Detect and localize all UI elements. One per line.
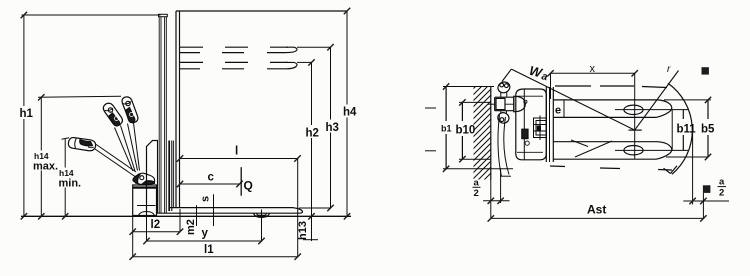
svg-text:b10: b10: [456, 125, 476, 137]
lowered fork side profile: [157, 208, 302, 214]
svg-text:h4: h4: [343, 107, 357, 119]
dimension l1 horizontal: [133, 256, 298, 258]
label h4: [342, 105, 357, 119]
svg-text:l: l: [235, 146, 238, 158]
dimension c horizontal: [180, 183, 240, 185]
label h1: [19, 106, 34, 120]
a/2 left verticals: [490, 180, 492, 219]
mast top cap: [159, 14, 168, 16]
dimension b10 vertical: [461, 102, 463, 121]
label h3: [325, 120, 340, 135]
lower fork top view: [553, 142, 672, 160]
dimension l2 horizontal: [133, 231, 180, 233]
drive wheel cross: [137, 205, 156, 207]
tiller head upper-left position: [103, 103, 122, 126]
x dimension line: [551, 72, 635, 74]
fork 2 tip: [286, 62, 297, 68]
load wheel cross: [261, 210, 263, 221]
svg-text:h13: h13: [297, 221, 309, 240]
svg-text:2: 2: [719, 188, 724, 199]
tiller head upper-right position: [122, 97, 138, 123]
dimension Ast horizontal: [491, 217, 704, 219]
fork 1 tip: [286, 47, 297, 52]
arc apex extension vertical: [692, 131, 694, 205]
drive wheel arc: [139, 212, 155, 216]
fork top extension right: [664, 99, 711, 101]
label a/2 left: [474, 178, 480, 200]
tiller pivot foot: [133, 173, 155, 184]
svg-text:max.: max.: [33, 161, 58, 173]
svg-text:h14: h14: [34, 151, 49, 161]
svg-text:b11: b11: [677, 124, 697, 136]
l2 extension verticals: [132, 216, 134, 258]
fork bottom extension right: [666, 156, 708, 158]
label h2: [305, 125, 320, 140]
dimension h14 min vertical line: [64, 139, 66, 217]
label h14 min: [58, 168, 81, 190]
svg-text:min.: min.: [59, 178, 82, 190]
dimension b11 vertical: [671, 110, 673, 151]
load envelope dashes top: [555, 86, 667, 88]
e dimension tick: [563, 100, 565, 118]
dimension b5 vertical: [707, 100, 709, 119]
b1 extension bottom: [443, 168, 513, 170]
upper aisle corner square: [702, 67, 709, 74]
truck body top view: [516, 89, 547, 160]
dimension h1 vertical line: [23, 15, 25, 216]
b10 extension top: [459, 101, 491, 103]
h1 tick top: [21, 12, 27, 18]
load wheel bumps: [254, 213, 270, 217]
h1 top extension line: [22, 14, 161, 16]
dimension y horizontal: [147, 240, 262, 242]
wall hatching: [470, 68, 494, 200]
upper fork top view: [553, 100, 672, 118]
fork carriage plates top view: [545, 87, 547, 162]
svg-text:b5: b5: [701, 124, 715, 136]
square to Ast extension: [702, 193, 704, 219]
lower aisle corner square: [703, 185, 711, 193]
svg-text:l1: l1: [204, 244, 214, 256]
raised fork 1 dashes bottom: [179, 52, 286, 54]
partial mirrored steer line: [575, 141, 612, 157]
load envelope dashes bottom: [550, 166, 672, 170]
turning radius arc: [668, 83, 692, 174]
svg-text:x: x: [590, 63, 596, 75]
svg-text:a: a: [719, 177, 725, 188]
arc arrowhead: [664, 166, 678, 174]
svg-text:s: s: [200, 196, 212, 202]
svg-text:2: 2: [474, 188, 479, 199]
dimension h2 vertical: [311, 62, 313, 241]
a/2 right dimension line: [683, 200, 729, 202]
label h14 max: [33, 151, 58, 173]
Wa line: [511, 69, 634, 130]
svg-text:b1: b1: [441, 124, 452, 134]
label a/2 right: [719, 177, 725, 199]
extension fork2 top to h2: [297, 61, 312, 63]
P node tick: [629, 129, 642, 131]
svg-text:m2: m2: [185, 219, 197, 235]
a/2 left dimension line: [483, 200, 510, 202]
h13 fork-top tick line: [299, 207, 331, 209]
b11 second vertical: [682, 110, 684, 119]
mast channel lines: [158, 17, 160, 214]
dimension h3 vertical: [330, 47, 332, 208]
h1 tick bottom: [21, 213, 27, 219]
svg-text:h2: h2: [306, 128, 319, 140]
y extension verticals: [146, 218, 148, 242]
raised fork 2 dashes top: [180, 61, 288, 63]
centerline dashes left: [425, 107, 436, 109]
svg-text:h3: h3: [326, 122, 339, 134]
drive unit body box: [133, 185, 157, 216]
svg-text:Q: Q: [244, 179, 253, 193]
s dimension vertical: [213, 194, 215, 226]
h14 max extension line: [38, 96, 121, 97]
dimension b1 vertical: [445, 87, 447, 122]
upper load wheel: [624, 105, 643, 114]
lower load wheel: [624, 146, 643, 155]
tiller head lowered (h14 min position): [68, 138, 95, 151]
h14 min top tick line: [62, 138, 70, 140]
tiller arm fan lines: [95, 123, 140, 177]
raised fork 1 dashes top: [180, 46, 288, 48]
svg-text:l2: l2: [151, 219, 161, 231]
svg-text:e: e: [555, 105, 561, 117]
b10 extension bottom: [459, 158, 491, 160]
axle center vertical: [634, 73, 636, 158]
wall face line: [490, 86, 492, 180]
m2 dimension vertical: [196, 205, 198, 226]
top line extended mast h4: [176, 10, 347, 12]
mast housing: [147, 141, 159, 215]
ground line: [21, 215, 351, 217]
r line to aisle corner: [635, 71, 679, 131]
dimension l horizontal: [180, 158, 298, 160]
load center bar Q: [240, 167, 242, 196]
dimension h14 max vertical line: [40, 97, 42, 216]
body top dark band: [133, 186, 157, 188]
fork carriage verticals raised: [175, 11, 177, 208]
tiller top view assembly: [488, 80, 525, 124]
b1 extension top: [443, 86, 494, 88]
dimension h4 vertical: [346, 11, 348, 216]
l1 right extension vertical: [297, 159, 299, 258]
h13 bottom tick: [303, 239, 318, 241]
tiller swing arcs: [498, 115, 502, 177]
svg-text:y: y: [202, 228, 209, 240]
raised fork 2 dashes bottom: [179, 68, 286, 70]
svg-text:Ast: Ast: [587, 203, 606, 217]
svg-text:h1: h1: [20, 108, 34, 120]
svg-text:h14: h14: [59, 168, 74, 178]
extension fork1 top to h3: [297, 46, 331, 48]
svg-text:c: c: [208, 172, 215, 184]
